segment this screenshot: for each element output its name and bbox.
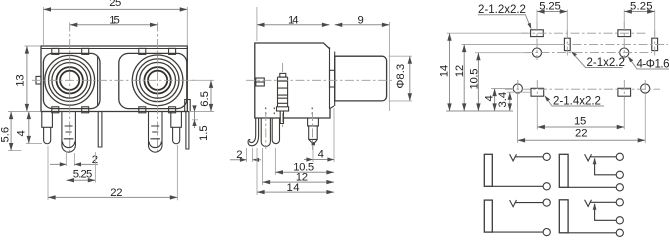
dimension 5.25 (front) xyxy=(66,152,95,183)
side view contact stack xyxy=(277,73,289,111)
dimension 5.6 (pin B length) xyxy=(0,112,40,151)
schematic jack symbol 4 (bottom-right) body xyxy=(559,200,568,233)
front view horizontal centerline xyxy=(32,79,196,81)
svg-text:14: 14 xyxy=(287,182,300,194)
svg-text:15: 15 xyxy=(109,14,120,26)
side view pin 1 xyxy=(261,118,270,146)
jack J2 pin B (center, long) xyxy=(149,112,163,153)
svg-text:14: 14 xyxy=(288,14,299,26)
jack J2 corner tabs xyxy=(139,48,176,112)
footprint slot 1x2.2 right xyxy=(652,38,658,50)
svg-text:4: 4 xyxy=(16,130,28,136)
footprint slot 1.2x2.2 left xyxy=(531,30,544,37)
symbol 1 tip terminal xyxy=(543,153,550,160)
dimension 12 (footprint) xyxy=(454,45,562,112)
symbol 3 sleeve terminal xyxy=(616,184,623,191)
svg-text:22: 22 xyxy=(575,128,588,140)
svg-text:14: 14 xyxy=(438,65,450,78)
symbol 4 switch terminal xyxy=(616,217,623,224)
dimension phi 8.3 (barrel diameter) xyxy=(389,56,413,101)
symbol 3 switch terminal xyxy=(616,171,623,178)
schematic jack symbol 2 (bottom-left) body xyxy=(484,200,492,232)
svg-text:5.25: 5.25 xyxy=(539,0,561,12)
footprint slot 1.4x2.2 left xyxy=(531,88,544,96)
svg-text:15: 15 xyxy=(574,116,586,128)
dimension 2 (front pin offset) xyxy=(50,151,98,167)
side view pin 2 xyxy=(272,118,279,144)
label 2-1.4x2.2 xyxy=(545,96,605,108)
symbol 1 sleeve terminal xyxy=(543,183,550,190)
side view barrel xyxy=(335,56,387,101)
dimension 15 (footprint) xyxy=(537,99,624,130)
front view left mounting tab xyxy=(36,76,41,84)
symbol 2 tip contact xyxy=(510,200,544,207)
dimension 22 (front pin row) xyxy=(48,145,177,200)
svg-text:9: 9 xyxy=(358,14,364,26)
svg-text:4: 4 xyxy=(318,149,324,161)
svg-text:13: 13 xyxy=(14,74,26,87)
svg-text:6.5: 6.5 xyxy=(199,91,211,107)
dimension 12 (side) xyxy=(263,148,335,185)
footprint slot 1x2.2 left xyxy=(564,38,570,50)
side view hook pin xyxy=(248,118,259,146)
jack J1 vertical centerline xyxy=(69,23,71,153)
jack J2 pin A (small) xyxy=(171,112,182,144)
side view stack centerline xyxy=(282,63,284,128)
front view body outline xyxy=(41,46,187,112)
dimension 14 (side, bottom) xyxy=(257,148,334,195)
side view flange slot xyxy=(330,70,335,87)
svg-text:1.5: 1.5 xyxy=(198,125,210,141)
svg-text:12: 12 xyxy=(454,65,466,78)
symbol 2 sleeve line xyxy=(492,231,543,233)
jack J2 vertical centerline xyxy=(157,23,159,153)
dimension 14 (footprint) xyxy=(438,33,528,111)
symbol 3 sleeve line xyxy=(568,186,616,188)
dimension 4 (footprint) xyxy=(484,89,513,112)
jack J2 pin C (flat, right side) xyxy=(185,100,191,150)
dimension 4 (side, pin3 to face) xyxy=(304,108,334,162)
footprint hole phi1.6 top-left xyxy=(532,48,541,57)
jack J1 concentric barrels xyxy=(45,55,95,105)
dimension 2 (side, hook to pin) xyxy=(230,148,261,162)
symbol 4 sleeve line xyxy=(568,232,616,234)
symbol 2 tip terminal xyxy=(543,199,550,206)
dimension 1.5 (pin C offset) xyxy=(192,105,210,141)
dimension 10.5 (side) xyxy=(275,148,334,175)
footprint hole phi1.6 bottom-right xyxy=(641,84,650,93)
svg-text:10.5: 10.5 xyxy=(469,69,481,90)
svg-text:5.6: 5.6 xyxy=(0,127,12,143)
symbol 2 sleeve terminal xyxy=(543,229,550,236)
svg-text:2: 2 xyxy=(236,149,242,161)
symbol 4 tip terminal xyxy=(616,199,623,206)
symbol 4 switch contact with arrow xyxy=(593,203,617,220)
footprint centerline row1 xyxy=(521,32,648,34)
dimension 15 (jack spacing) xyxy=(70,14,158,27)
schematic jack symbol 1 (top-left) body xyxy=(484,154,492,186)
side view pin 1 centerline xyxy=(265,112,267,149)
svg-text:5.25: 5.25 xyxy=(630,0,653,12)
svg-text:5.25: 5.25 xyxy=(73,169,93,181)
schematic jack symbol 3 (top-right) body xyxy=(559,154,568,187)
label 4-phi1.6 xyxy=(628,56,670,70)
symbol 3 tip terminal xyxy=(616,153,623,160)
footprint slot 1.4x2.2 right xyxy=(618,88,631,96)
svg-text:25: 25 xyxy=(109,0,121,9)
svg-text:4: 4 xyxy=(484,95,496,101)
dimension 10.5 (footprint) xyxy=(469,53,531,111)
symbol 1 sleeve line xyxy=(492,185,543,187)
symbol 3 switch contact with arrow xyxy=(593,158,617,175)
footprint centerline row4 xyxy=(505,88,660,90)
dimension 25 (front overall width) xyxy=(43,0,187,45)
symbol 4 tip contact xyxy=(585,200,617,207)
footprint datum baseline xyxy=(446,110,513,112)
svg-text:3.4: 3.4 xyxy=(497,92,509,108)
jack J1 pin B (center, long) xyxy=(62,112,76,153)
side view left tab xyxy=(256,78,264,86)
footprint slot 1.2x2.2 right xyxy=(618,30,631,37)
jack J2 concentric barrels xyxy=(132,55,183,106)
footprint centerline row2 xyxy=(556,43,668,45)
jack J1 corner tabs xyxy=(52,48,89,112)
footprint centerline row3 xyxy=(524,52,652,54)
dimension 5.25 left (footprint) xyxy=(537,0,567,36)
jack J2 face plate xyxy=(119,53,187,108)
footprint column centerlines xyxy=(518,22,655,100)
symbol 4 sleeve terminal xyxy=(616,229,623,236)
dimension 13 (body height) xyxy=(14,46,40,112)
side view body outline xyxy=(255,43,330,118)
svg-text:Φ8.3: Φ8.3 xyxy=(395,64,407,89)
dimension 22 (footprint) xyxy=(518,94,646,143)
jack J1 pin C (flat) xyxy=(98,112,102,148)
footprint hole phi1.6 bottom-left xyxy=(513,84,522,93)
symbol 3 tip contact xyxy=(585,154,617,161)
svg-text:22: 22 xyxy=(110,187,122,199)
dimension 14 (side body width, top) xyxy=(257,7,390,111)
jack J1 face plate xyxy=(43,53,100,108)
footprint hole phi1.6 top-right xyxy=(620,48,629,57)
side view flange plate xyxy=(330,47,335,108)
svg-text:2: 2 xyxy=(92,154,98,166)
side view centerline xyxy=(246,79,394,81)
dimension 6.5 (centerline to bottom) xyxy=(189,80,214,111)
dimension 4 (pin A length) xyxy=(16,112,43,144)
side view pin 3 centerline xyxy=(312,112,314,150)
dimension 9 (barrel length) xyxy=(335,14,390,27)
label 2-1.2x2.2 xyxy=(478,4,532,29)
side view stack pin stub xyxy=(280,111,283,124)
label 2-1x2.2 xyxy=(571,51,625,69)
dimension 5.25 right (footprint) xyxy=(624,0,654,36)
side view hidden line dots xyxy=(266,108,313,116)
jack J1 pin A (small) xyxy=(42,112,53,144)
side view pin 3 (under barrel) xyxy=(308,118,319,145)
symbol 1 tip contact xyxy=(510,154,544,161)
dimension 3.4 (footprint) xyxy=(497,92,530,111)
